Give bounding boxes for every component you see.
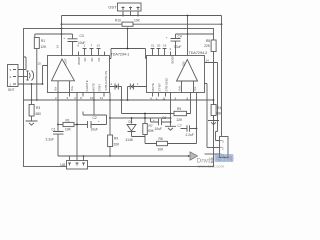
- diode D1: [127, 125, 136, 137]
- wire out U1: [61, 16, 63, 56]
- ground below R4: [208, 116, 219, 125]
- svg-text:50K: 50K: [148, 129, 155, 133]
- svg-text:C2: C2: [93, 116, 97, 120]
- svg-text:13: 13: [97, 44, 101, 48]
- wire pin2 down to C1 node: [57, 97, 59, 125]
- svg-text:+: +: [153, 118, 155, 122]
- wire OST pins down: [123, 11, 138, 16]
- svg-text:10K: 10K: [158, 147, 165, 151]
- svg-text:MUTE: MUTE: [92, 83, 96, 91]
- svg-text:3.3uF: 3.3uF: [46, 138, 54, 142]
- watermark: [197, 154, 234, 168]
- svg-text:2.2uF: 2.2uF: [186, 133, 194, 137]
- svg-text:R3: R3: [36, 106, 40, 110]
- resistor R8: [211, 40, 216, 52]
- svg-text:1: 1: [137, 82, 139, 86]
- resistor R1 (12K): [34, 38, 39, 49]
- svg-text:4: 4: [74, 96, 76, 100]
- svg-text:R4: R4: [217, 106, 221, 110]
- svg-text:10: 10: [90, 96, 94, 100]
- resistor R2 (10K): [58, 124, 63, 126]
- capacitor C4: [171, 34, 181, 56]
- connector J1 audio input: [8, 65, 19, 87]
- wire pin10 net: [83, 97, 107, 116]
- svg-text:STBY: STBY: [98, 84, 102, 92]
- op-amp U2 (right IC): [147, 56, 205, 93]
- wire rail V2: [62, 23, 222, 25]
- wire down to bus: [31, 84, 33, 100]
- resistor R4: [213, 100, 215, 105]
- wire inner-left net: [35, 34, 73, 38]
- capacitor C1: [53, 125, 64, 157]
- svg-text:OST: OST: [108, 5, 117, 10]
- svg-text:+: +: [98, 119, 100, 123]
- capacitor C3: [68, 34, 78, 56]
- svg-text:OUT: OUT: [64, 58, 68, 64]
- svg-text:R9: R9: [114, 137, 118, 141]
- wire pot wiper up: [76, 97, 78, 157]
- svg-text:www.dzsc.com: www.dzsc.com: [198, 163, 225, 168]
- svg-text:14: 14: [56, 45, 60, 49]
- speaker LS: [188, 155, 190, 157]
- svg-text:STB-G-PW-VS: STB-G-PW-VS: [104, 71, 108, 91]
- svg-text:12K: 12K: [41, 45, 48, 49]
- wire to R6: [132, 135, 157, 144]
- svg-text:100: 100: [182, 61, 186, 66]
- U1 pin 15: [43, 66, 48, 85]
- svg-text:11: 11: [100, 96, 103, 100]
- svg-text:R1: R1: [41, 39, 45, 43]
- svg-text:2: 2: [111, 82, 113, 86]
- svg-text:2: 2: [55, 96, 57, 100]
- svg-text:R6: R6: [159, 137, 163, 141]
- wire rail down right: [221, 16, 223, 137]
- svg-text:20K: 20K: [114, 143, 121, 147]
- capacitor C5: [110, 84, 122, 114]
- svg-text:R1: R1: [66, 119, 70, 123]
- wire inner-right net: [176, 33, 214, 35]
- svg-text:+: +: [166, 36, 168, 40]
- svg-text:C3: C3: [80, 34, 84, 38]
- svg-text:CK: CK: [97, 57, 101, 61]
- svg-text:10uF: 10uF: [174, 45, 181, 49]
- svg-text:IN+: IN+: [178, 86, 182, 91]
- U2 right edge pin to JP2 pin2: [205, 84, 208, 148]
- svg-text:4148: 4148: [126, 138, 133, 142]
- svg-text:20: 20: [157, 44, 161, 48]
- resistor R6: [157, 141, 168, 145]
- svg-text:2: 2: [170, 47, 172, 51]
- wire JP2 pin1 stub: [205, 153, 220, 155]
- svg-text:BOOT: BOOT: [77, 56, 81, 65]
- svg-text:TDA7294-2: TDA7294-2: [189, 51, 208, 55]
- svg-text:BOOT: BOOT: [171, 55, 175, 64]
- svg-text:IN-: IN-: [193, 87, 197, 91]
- svg-text:22K: 22K: [204, 44, 211, 48]
- svg-text:C6: C6: [162, 116, 166, 120]
- capacitor C6: [151, 119, 171, 125]
- resistor R9 (20K): [109, 93, 111, 136]
- svg-text:10uF: 10uF: [91, 127, 98, 131]
- svg-text:SHT: SHT: [8, 88, 15, 92]
- svg-text:7: 7: [91, 44, 93, 48]
- ground below C6: [165, 126, 176, 130]
- svg-text:IN+: IN+: [70, 86, 74, 91]
- wire U2 pin5 vertical: [196, 97, 198, 144]
- capacitor C8: [128, 84, 147, 101]
- svg-text:14: 14: [206, 59, 210, 63]
- wire signal line to speaker: [58, 155, 189, 157]
- svg-text:C1: C1: [51, 128, 55, 132]
- wire J1 pin2: [18, 76, 27, 78]
- svg-text:电子网: 电子网: [216, 155, 233, 163]
- op-amp U1 (left IC): [48, 56, 110, 93]
- svg-text:R10: R10: [115, 18, 121, 22]
- svg-text:22K: 22K: [177, 118, 184, 122]
- U2 bottom pin stubs: [153, 93, 197, 97]
- U2 top pin stubs: [151, 49, 176, 56]
- wire mute net lines: [110, 114, 171, 124]
- svg-text:C7: C7: [178, 124, 182, 128]
- resistor R3: [31, 100, 33, 105]
- svg-text:9: 9: [80, 96, 82, 100]
- svg-text:10K: 10K: [134, 18, 141, 22]
- svg-text:STB-GND: STB-GND: [165, 78, 169, 91]
- wire R1 down to bus: [36, 49, 38, 101]
- wire out U2: [187, 16, 189, 56]
- svg-text:10uF: 10uF: [155, 127, 162, 131]
- volume pot U8: [67, 161, 88, 170]
- resistor R5: [171, 113, 175, 115]
- svg-text:R8: R8: [206, 39, 210, 43]
- capacitor C2: [88, 115, 107, 128]
- svg-text:10K: 10K: [65, 128, 72, 132]
- wire bias bus: [24, 99, 214, 101]
- microphone icon: [26, 71, 28, 80]
- svg-text:TDA7294-1: TDA7294-1: [111, 53, 130, 57]
- resistor R10: [122, 22, 133, 26]
- svg-text:MUTE: MUTE: [151, 83, 155, 91]
- ground below R3: [26, 116, 38, 125]
- U2 right edge pin 14: [205, 63, 218, 132]
- connector OST (power header): [118, 3, 142, 11]
- svg-text:15: 15: [38, 62, 42, 66]
- wire J1 pin3 to frame: [18, 57, 26, 70]
- svg-text:19: 19: [163, 44, 167, 48]
- U1 top pin stubs: [79, 49, 105, 56]
- wire JP2 pin2 stub: [207, 147, 220, 149]
- svg-text:21: 21: [151, 44, 155, 48]
- svg-text:680: 680: [36, 112, 42, 116]
- svg-text:C4: C4: [178, 35, 182, 39]
- frame ground loop: [24, 29, 214, 167]
- wire J1 pin1 row: [18, 83, 43, 85]
- svg-text:S-MUTE: S-MUTE: [85, 80, 89, 91]
- wire rail V+: [62, 15, 222, 17]
- svg-text:D1: D1: [129, 120, 133, 124]
- capacitor C7: [181, 125, 197, 131]
- svg-text:R5: R5: [177, 107, 181, 111]
- wire U2 pin3 down: [170, 97, 172, 127]
- wire supply split to both ICs: [110, 29, 147, 59]
- wire to JP2 pin3: [216, 132, 220, 141]
- svg-text:ST-BY: ST-BY: [158, 83, 162, 92]
- svg-text:U8: U8: [60, 163, 65, 167]
- svg-text:+: +: [63, 36, 65, 40]
- svg-text:3: 3: [67, 96, 69, 100]
- svg-text:11: 11: [163, 97, 166, 101]
- connector JP2 output: [220, 137, 229, 158]
- U1 bottom pin stubs: [58, 93, 104, 97]
- svg-text:R7: R7: [149, 124, 153, 128]
- svg-text:IN-: IN-: [54, 87, 58, 91]
- resistor R7: [143, 124, 148, 135]
